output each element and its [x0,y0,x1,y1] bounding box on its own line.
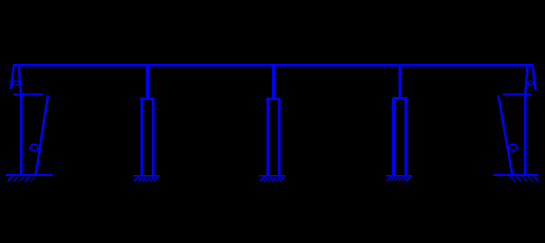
right inclined strut [498,95,512,174]
pier P2 stem [272,66,275,98]
right bearing link left edge / abutment leg [525,66,528,176]
right abutment cap [503,93,531,95]
left strut pin hinge [30,144,38,151]
beam (continuous girder) [13,64,533,67]
pier P1 ground line [133,175,159,177]
left ground hatching [7,176,35,181]
right ground hatching [510,176,538,181]
right bearing pin hinge [528,81,533,85]
right ground line [494,174,539,176]
pier P1 ground hatching [134,177,158,181]
pier P2 ground hatching [260,177,284,181]
pier P3 stem [398,66,401,98]
pier P1 stem [146,66,149,98]
pier P1 column [140,98,155,175]
left ground line [6,174,52,176]
left bearing pin hinge [13,81,18,85]
right bearing link right edge [533,66,536,89]
pier P3 column [393,98,408,175]
pier P3 ground hatching [387,177,411,181]
left bearing link left edge [11,66,14,89]
pier P3 ground line [386,175,412,177]
left bearing link right edge / abutment leg [19,66,22,176]
pier P2 ground line [259,175,286,177]
right strut pin hinge [509,144,517,151]
pier P2 column [266,98,281,175]
left inclined strut [36,95,48,174]
left abutment cap [14,93,43,95]
